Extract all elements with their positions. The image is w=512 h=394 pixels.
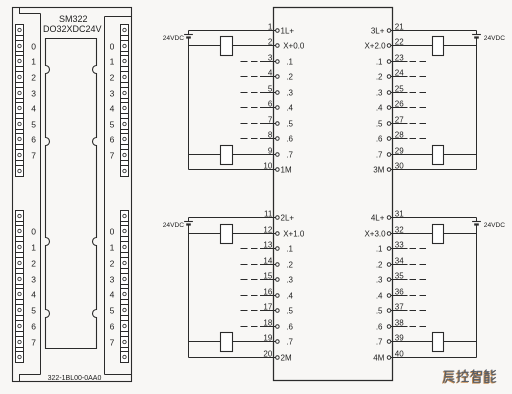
- wire pin 32 to load: [391, 233, 433, 235]
- svg-text:39: 39: [395, 334, 404, 343]
- svg-text:4M: 4M: [373, 354, 384, 363]
- terminal pin 26: [387, 106, 391, 110]
- svg-text:4: 4: [110, 290, 115, 300]
- svg-text:6: 6: [268, 100, 273, 109]
- svg-text:20: 20: [263, 350, 272, 359]
- svg-text:23: 23: [395, 54, 404, 63]
- wire pin 14: [260, 264, 276, 266]
- svg-text:2: 2: [268, 38, 273, 47]
- wire pin 25: [391, 92, 408, 94]
- svg-text:.4: .4: [286, 292, 293, 301]
- load actuator (pin 39): [433, 333, 444, 352]
- terminal pin 31: [387, 216, 391, 220]
- svg-text:2M: 2M: [281, 354, 292, 363]
- load actuator (pin 19): [221, 333, 233, 352]
- load actuator (pin 22): [433, 37, 444, 56]
- wire pin 26: [391, 107, 408, 109]
- terminal numbers 0-7 right lower: [110, 227, 115, 348]
- svg-text:4: 4: [31, 104, 36, 114]
- dashed wire stub pin 4: [241, 76, 258, 78]
- terminal pin 15: [276, 278, 280, 282]
- module inner contour top-left step: [20, 8, 41, 14]
- svg-text:5: 5: [31, 120, 36, 130]
- wire pin 7: [260, 123, 276, 125]
- svg-text:7: 7: [110, 338, 115, 348]
- watermark logo text (orange layer): [443, 371, 495, 383]
- svg-text:.2: .2: [376, 73, 383, 82]
- wire pin 3: [260, 61, 276, 63]
- svg-text:8: 8: [268, 131, 273, 140]
- svg-text:22: 22: [395, 38, 404, 47]
- svg-text:7: 7: [110, 151, 115, 161]
- negative rail wire (group 4): [476, 225, 478, 358]
- svg-text:24VDC: 24VDC: [163, 222, 184, 229]
- wire load to pin 12: [233, 233, 276, 235]
- svg-text:1: 1: [31, 243, 36, 253]
- battery 24VDC (group 3): [472, 31, 481, 38]
- svg-text:26: 26: [395, 100, 404, 109]
- svg-text:34: 34: [395, 257, 404, 266]
- svg-text:.7: .7: [286, 338, 293, 347]
- dashed wire stub pin 13: [241, 248, 258, 250]
- wire pin 15: [260, 279, 276, 281]
- terminal pin 1: [276, 29, 280, 33]
- svg-text:19: 19: [263, 334, 272, 343]
- svg-text:24: 24: [395, 69, 404, 78]
- module boundary box (schematic): [274, 8, 393, 381]
- terminal pin 6: [276, 106, 280, 110]
- wire M return to pin 20: [189, 357, 276, 359]
- terminal pin 30: [387, 168, 391, 172]
- svg-text:1L+: 1L+: [281, 27, 295, 36]
- wire rail to load (pin 19): [189, 341, 221, 343]
- dashed wire stub pin 24: [410, 76, 427, 78]
- svg-text:24VDC: 24VDC: [484, 35, 505, 42]
- svg-text:2: 2: [110, 259, 115, 269]
- dashed wire stub pin 33: [410, 248, 427, 250]
- module center plate with mounting notches: [46, 39, 97, 349]
- terminal pin 21: [387, 29, 391, 33]
- terminal numbers 0-7 left upper: [31, 42, 36, 161]
- wire pin 5: [260, 92, 276, 94]
- wire load to rail (pin 39): [444, 341, 477, 343]
- svg-text:2L+: 2L+: [281, 214, 295, 223]
- svg-text:3: 3: [268, 54, 273, 63]
- svg-text:0: 0: [110, 227, 115, 237]
- svg-text:X+3.0: X+3.0: [364, 230, 386, 239]
- dashed wire stub pin 14: [241, 264, 258, 266]
- svg-text:3L+: 3L+: [371, 27, 385, 36]
- wire pin 29 to load: [391, 154, 433, 156]
- svg-text:16: 16: [263, 288, 272, 297]
- wire rail to load (pin 9): [189, 154, 221, 156]
- svg-text:0: 0: [110, 42, 115, 52]
- svg-text:10: 10: [263, 162, 272, 171]
- module inner contour right vertical: [104, 17, 106, 375]
- svg-text:.5: .5: [286, 120, 293, 129]
- dashed wire stub pin 36: [410, 295, 427, 297]
- svg-text:5: 5: [31, 306, 36, 316]
- dashed wire stub pin 28: [410, 138, 427, 140]
- svg-text:3: 3: [31, 89, 36, 99]
- wire pin 6: [260, 107, 276, 109]
- dashed wire stub pin 37: [410, 310, 427, 312]
- svg-text:.5: .5: [286, 307, 293, 316]
- module inner contour bottom-right line: [105, 374, 132, 376]
- wire M return to pin 10: [189, 169, 276, 171]
- svg-text:7: 7: [31, 151, 36, 161]
- svg-text:17: 17: [263, 303, 272, 312]
- terminal pin 13: [276, 247, 280, 251]
- wire pin 4: [260, 76, 276, 78]
- load actuator (pin 2): [221, 37, 233, 56]
- module front view outer body: [13, 8, 132, 382]
- terminal pin 35: [387, 278, 391, 282]
- load actuator (pin 12): [221, 225, 233, 244]
- svg-text:25: 25: [395, 85, 404, 94]
- wire pin 18: [260, 326, 276, 328]
- svg-text:29: 29: [395, 147, 404, 156]
- svg-text:3: 3: [31, 275, 36, 285]
- load actuator (pin 9): [221, 146, 233, 165]
- svg-text:1: 1: [31, 57, 36, 67]
- svg-text:.5: .5: [376, 307, 383, 316]
- svg-text:.4: .4: [286, 104, 293, 113]
- svg-text:4: 4: [110, 104, 115, 114]
- svg-text:24VDC: 24VDC: [484, 222, 505, 229]
- svg-text:27: 27: [395, 116, 404, 125]
- wire pin 24: [391, 76, 408, 78]
- dashed wire stub pin 35: [410, 279, 427, 281]
- wire L+ supply to pin 31: [391, 217, 477, 219]
- terminal pin 12: [276, 232, 280, 236]
- terminal pin 38: [387, 325, 391, 329]
- wire L+ supply to pin 11: [189, 217, 276, 219]
- svg-text:6: 6: [31, 322, 36, 332]
- svg-text:3M: 3M: [373, 166, 384, 175]
- svg-text:6: 6: [110, 322, 115, 332]
- terminal pin 36: [387, 294, 391, 298]
- dashed wire stub pin 23: [410, 61, 427, 63]
- svg-text:.7: .7: [286, 151, 293, 160]
- terminal pin 7: [276, 122, 280, 126]
- svg-text:.7: .7: [376, 338, 383, 347]
- svg-text:1: 1: [110, 57, 115, 67]
- terminal pin 40: [387, 356, 391, 360]
- wire pin 17: [260, 310, 276, 312]
- terminal pin 4: [276, 75, 280, 79]
- wire load to pin 9: [233, 154, 276, 156]
- svg-text:4L+: 4L+: [371, 214, 385, 223]
- terminal pin 27: [387, 122, 391, 126]
- wire pin 23: [391, 61, 408, 63]
- svg-text:.6: .6: [376, 135, 383, 144]
- module inner contour top-right line: [105, 16, 132, 18]
- svg-text:14: 14: [263, 257, 272, 266]
- wire load to rail (pin 29): [444, 154, 477, 156]
- svg-text:.3: .3: [376, 89, 383, 98]
- wire rail to load (pin 2): [189, 45, 221, 47]
- negative rail wire (group 2): [188, 225, 190, 358]
- dashed wire stub pin 25: [410, 92, 427, 94]
- svg-text:.5: .5: [376, 120, 383, 129]
- svg-text:4: 4: [268, 69, 273, 78]
- wire pin 38: [391, 326, 408, 328]
- terminal pin 29: [387, 153, 391, 157]
- dashed wire stub pin 3: [241, 61, 258, 63]
- svg-text:31: 31: [395, 210, 404, 219]
- svg-text:21: 21: [395, 23, 404, 32]
- wire load to pin 2: [233, 45, 276, 47]
- terminal pin 11: [276, 216, 280, 220]
- terminal pin 24: [387, 75, 391, 79]
- svg-text:3: 3: [110, 89, 115, 99]
- wire pin 35: [391, 279, 408, 281]
- svg-text:X+0.0: X+0.0: [283, 42, 305, 51]
- svg-text:2: 2: [31, 259, 36, 269]
- svg-text:13: 13: [263, 241, 272, 250]
- dashed wire stub pin 7: [241, 123, 258, 125]
- svg-text:.7: .7: [376, 151, 383, 160]
- terminal strip right upper (pins 21-30): [121, 25, 129, 177]
- terminal strip right lower (pins 31-40): [121, 211, 129, 363]
- svg-text:322-1BL00-0AA0: 322-1BL00-0AA0: [48, 375, 102, 382]
- svg-text:38: 38: [395, 319, 404, 328]
- terminal pin 37: [387, 309, 391, 313]
- terminal pin 2: [276, 44, 280, 48]
- terminal pin 18: [276, 325, 280, 329]
- terminal pin 10: [276, 168, 280, 172]
- svg-text:1: 1: [268, 23, 273, 32]
- terminal pin 8: [276, 137, 280, 141]
- wire pin 34: [391, 264, 408, 266]
- svg-text:.6: .6: [286, 135, 293, 144]
- svg-text:9: 9: [268, 147, 273, 156]
- wire M return to pin 30: [391, 169, 477, 171]
- negative rail wire (group 3): [476, 38, 478, 170]
- wire load to pin 19: [233, 341, 276, 343]
- svg-text:6: 6: [31, 135, 36, 145]
- dashed wire stub pin 26: [410, 107, 427, 109]
- svg-text:5: 5: [110, 306, 115, 316]
- dashed wire stub pin 16: [241, 295, 258, 297]
- svg-text:.3: .3: [376, 276, 383, 285]
- wire pin 13: [260, 248, 276, 250]
- battery 24VDC (group 2): [184, 218, 193, 225]
- dashed wire stub pin 34: [410, 264, 427, 266]
- svg-text:.2: .2: [286, 73, 293, 82]
- dashed wire stub pin 17: [241, 310, 258, 312]
- svg-text:X+1.0: X+1.0: [283, 230, 305, 239]
- svg-text:0: 0: [31, 42, 36, 52]
- wire pin 27: [391, 123, 408, 125]
- svg-text:3: 3: [110, 275, 115, 285]
- terminal pin 19: [276, 340, 280, 344]
- terminal pin 25: [387, 91, 391, 95]
- svg-text:7: 7: [31, 338, 36, 348]
- svg-text:.2: .2: [286, 261, 293, 270]
- svg-text:2: 2: [110, 73, 115, 83]
- terminal pin 17: [276, 309, 280, 313]
- module inner contour left vertical: [40, 14, 42, 375]
- terminal pin 16: [276, 294, 280, 298]
- terminal pin 32: [387, 232, 391, 236]
- svg-text:5: 5: [268, 85, 273, 94]
- module inner contour bottom-left step: [20, 375, 41, 382]
- watermark logo text (slate layer): [444, 370, 496, 382]
- wire L+ supply to pin 1: [189, 30, 276, 32]
- terminal pin 39: [387, 340, 391, 344]
- svg-text:33: 33: [395, 241, 404, 250]
- svg-text:1M: 1M: [281, 166, 292, 175]
- svg-text:X+2.0: X+2.0: [364, 42, 386, 51]
- terminal pin 20: [276, 356, 280, 360]
- svg-text:.1: .1: [376, 245, 383, 254]
- terminal pin 33: [387, 247, 391, 251]
- negative rail wire (group 1): [188, 38, 190, 170]
- svg-text:30: 30: [395, 162, 404, 171]
- wire pin 33: [391, 248, 408, 250]
- svg-text:18: 18: [263, 319, 272, 328]
- svg-text:6: 6: [110, 135, 115, 145]
- terminal pin 5: [276, 91, 280, 95]
- svg-text:24VDC: 24VDC: [163, 35, 184, 42]
- terminal strip left lower (pins 11-20): [16, 211, 24, 363]
- svg-text:40: 40: [395, 350, 404, 359]
- dashed wire stub pin 27: [410, 123, 427, 125]
- svg-text:37: 37: [395, 303, 404, 312]
- terminal pin 9: [276, 153, 280, 157]
- wire pin 37: [391, 310, 408, 312]
- svg-text:1: 1: [110, 243, 115, 253]
- svg-text:.6: .6: [286, 323, 293, 332]
- svg-text:.4: .4: [376, 104, 383, 113]
- svg-text:.3: .3: [286, 276, 293, 285]
- svg-text:4: 4: [31, 290, 36, 300]
- svg-text:32: 32: [395, 226, 404, 235]
- wire pin 28: [391, 138, 408, 140]
- load actuator (pin 32): [433, 225, 444, 244]
- dashed wire stub pin 38: [410, 326, 427, 328]
- svg-text:.1: .1: [376, 58, 383, 67]
- svg-text:0: 0: [31, 227, 36, 237]
- svg-text:35: 35: [395, 272, 404, 281]
- battery 24VDC (group 4): [472, 218, 481, 225]
- terminal pin 28: [387, 137, 391, 141]
- wire pin 39 to load: [391, 341, 433, 343]
- wire pin 8: [260, 138, 276, 140]
- svg-text:15: 15: [263, 272, 272, 281]
- svg-text:.6: .6: [376, 323, 383, 332]
- terminal strip left upper (pins 1-10): [16, 25, 24, 177]
- svg-text:7: 7: [268, 116, 273, 125]
- terminal numbers 0-7 left lower: [31, 227, 36, 348]
- wire load to rail (pin 32): [444, 233, 477, 235]
- terminal pin 14: [276, 263, 280, 267]
- svg-text:.1: .1: [286, 245, 293, 254]
- terminal pin 23: [387, 60, 391, 64]
- svg-text:.1: .1: [286, 58, 293, 67]
- load actuator (pin 29): [433, 146, 444, 165]
- wire pin 36: [391, 295, 408, 297]
- svg-text:2: 2: [31, 73, 36, 83]
- svg-text:11: 11: [264, 210, 273, 219]
- dashed wire stub pin 6: [241, 107, 258, 109]
- svg-text:.3: .3: [286, 89, 293, 98]
- dashed wire stub pin 5: [241, 92, 258, 94]
- wire M return to pin 40: [391, 357, 477, 359]
- svg-text:DO32XDC24V: DO32XDC24V: [43, 24, 102, 34]
- svg-text:SM322: SM322: [59, 14, 88, 24]
- terminal pin 3: [276, 60, 280, 64]
- wire load to rail (pin 22): [444, 45, 477, 47]
- dashed wire stub pin 18: [241, 326, 258, 328]
- wire rail to load (pin 12): [189, 233, 221, 235]
- svg-text:36: 36: [395, 288, 404, 297]
- terminal pin 34: [387, 263, 391, 267]
- svg-text:.2: .2: [376, 261, 383, 270]
- wire pin 22 to load: [391, 45, 433, 47]
- svg-text:28: 28: [395, 131, 404, 140]
- svg-text:5: 5: [110, 120, 115, 130]
- svg-text:12: 12: [263, 226, 272, 235]
- battery 24VDC (group 1): [184, 31, 193, 38]
- terminal numbers 0-7 right upper: [110, 42, 115, 161]
- svg-text:.4: .4: [376, 292, 383, 301]
- dashed wire stub pin 8: [241, 138, 258, 140]
- terminal pin 22: [387, 44, 391, 48]
- wire L+ supply to pin 21: [391, 30, 477, 32]
- dashed wire stub pin 15: [241, 279, 258, 281]
- wire pin 16: [260, 295, 276, 297]
